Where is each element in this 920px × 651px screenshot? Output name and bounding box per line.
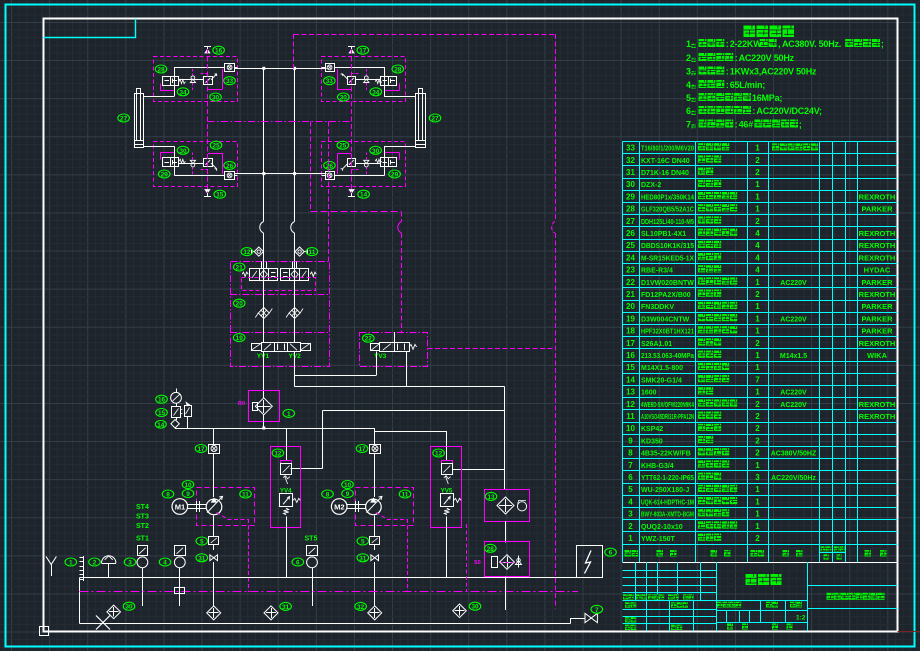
wire BR block to right cylinder: [384, 146, 415, 148]
manifold block outline: [230, 262, 330, 367]
label 8 M2: [322, 490, 334, 499]
label 26 BR: [324, 161, 336, 170]
jog on A riser: [260, 222, 264, 234]
tank bottom line: [80, 623, 571, 625]
check-throttle 20a: [255, 308, 272, 319]
svg-text:AC380V/50HZ: AC380V/50HZ: [771, 451, 817, 458]
svg-text:33: 33: [626, 144, 635, 153]
label 22: [363, 334, 375, 343]
motor-pump group M2: [331, 488, 413, 592]
node A marker: [155, 420, 179, 429]
label 33 TR: [324, 77, 336, 86]
svg-text:YTT62-1-220-IP65: YTT62-1-220-IP65: [641, 475, 694, 482]
measuring coupling on A riser: [251, 247, 263, 256]
svg-text:30: 30: [340, 95, 348, 102]
label 16 gauge: [156, 395, 168, 404]
svg-text:AC220V: AC220V: [780, 280, 807, 287]
svg-text:3: 3: [686, 67, 691, 77]
svg-text:WIKA: WIKA: [867, 351, 888, 360]
svg-text:BWY-803A-XMTD-BGM: BWY-803A-XMTD-BGM: [641, 512, 694, 519]
wire TR block to right cylinder: [384, 96, 415, 98]
svg-text:33: 33: [226, 78, 234, 85]
svg-text:REXROTH: REXROTH: [859, 229, 896, 238]
bottom-right red line: [898, 631, 920, 633]
temperature switch 3 column: [137, 546, 148, 607]
tank right return: [571, 618, 586, 623]
svg-text:M2: M2: [334, 503, 345, 512]
tank drain X: [96, 616, 110, 630]
svg-text:30: 30: [179, 148, 187, 155]
svg-text:1: 1: [628, 534, 633, 543]
air cooler block 13: [485, 490, 530, 522]
junction dot rail-filter: [262, 427, 265, 430]
pilot line right trunk vertical: [552, 34, 556, 609]
jog on B riser: [291, 222, 295, 234]
label 17 pump2: [356, 445, 368, 454]
label 7: [591, 605, 603, 614]
svg-text:REXROTH: REXROTH: [859, 192, 896, 201]
motor-pump group M1: [172, 488, 255, 592]
svg-text:8: 8: [628, 449, 633, 458]
svg-text:M1: M1: [175, 503, 186, 512]
svg-text:QUQ2-10x10: QUQ2-10x10: [641, 524, 683, 531]
svg-text:1: 1: [755, 192, 760, 201]
svg-text:4: 4: [755, 253, 760, 262]
solenoid relief block YV5: [431, 447, 462, 578]
pilot line top horizontal: [294, 34, 555, 36]
svg-text:30: 30: [471, 604, 479, 611]
svg-text:20: 20: [626, 302, 635, 311]
label 11 M1: [240, 490, 252, 499]
svg-text:23: 23: [626, 266, 635, 275]
svg-text:20: 20: [236, 301, 244, 308]
svg-text:1: 1: [755, 510, 760, 519]
hydraulic cylinder 27 (right): [415, 89, 425, 148]
svg-text:PARKER: PARKER: [861, 278, 893, 287]
svg-text:REXROTH: REXROTH: [859, 241, 896, 250]
check valve 17 pump1: [209, 445, 220, 454]
wire pump rail: [175, 428, 375, 430]
air breather 2: [102, 556, 116, 578]
label 1: [65, 558, 77, 567]
svg-text:AC220V: AC220V: [780, 402, 807, 409]
svg-text:2: 2: [755, 400, 760, 409]
wire filter vertical: [263, 391, 265, 428]
svg-text:32: 32: [357, 604, 365, 611]
pilot line BR to block22: [311, 122, 402, 333]
label 6: [292, 558, 304, 567]
svg-text:FD12PA2X/B00: FD12PA2X/B00: [641, 292, 691, 299]
label 12 YV4: [272, 449, 284, 458]
svg-text:5: 5: [686, 93, 691, 103]
svg-text:S26A1.01: S26A1.01: [641, 341, 672, 348]
svg-text:1: 1: [69, 560, 73, 567]
yv5 case drain: [466, 524, 468, 592]
svg-text:1: 1: [755, 485, 760, 494]
svg-text:2: 2: [755, 412, 760, 421]
svg-text:4: 4: [686, 80, 691, 90]
svg-text:2: 2: [755, 436, 760, 445]
svg-text:YV3: YV3: [374, 353, 387, 360]
label 28 return filter: [485, 544, 497, 553]
svg-text:19: 19: [236, 335, 244, 342]
svg-text:30: 30: [212, 95, 220, 102]
label 30 diffuser: [123, 602, 135, 611]
svg-text:9: 9: [628, 436, 633, 445]
label 14 below BR: [358, 190, 370, 199]
svg-text:7: 7: [755, 375, 760, 384]
svg-text:D71K-16 DN40: D71K-16 DN40: [641, 170, 689, 177]
svg-text:21: 21: [626, 290, 635, 299]
svg-text:8: 8: [326, 492, 330, 499]
wire pump2 pressure: [374, 428, 376, 497]
svg-text::: :: [726, 39, 729, 49]
svg-text:4: 4: [755, 266, 760, 275]
svg-text:3: 3: [128, 560, 132, 567]
label 18 filter: [283, 409, 295, 418]
label 9 M2: [342, 490, 354, 499]
wire yv4 branch link: [291, 468, 323, 470]
svg-text:UQK-614-HDPTHC-1M: UQK-614-HDPTHC-1M: [641, 499, 694, 506]
heater 6 column: [307, 546, 318, 607]
svg-text:26: 26: [626, 229, 635, 238]
svg-text:;: ;: [881, 39, 884, 49]
svg-text:1: 1: [755, 144, 760, 153]
svg-text:2: 2: [755, 339, 760, 348]
svg-text:S0: S0: [474, 560, 481, 566]
svg-text:1: 1: [755, 461, 760, 470]
svg-text:,: ,: [778, 39, 781, 49]
label 8 M1: [162, 490, 174, 499]
suction diffuser pump2: [368, 606, 382, 620]
valve block bottom-right: [322, 142, 406, 187]
svg-text:15: 15: [216, 192, 224, 199]
label 30 right diffuser: [469, 602, 481, 611]
svg-text:11: 11: [626, 412, 635, 421]
svg-text:KSP42: KSP42: [641, 426, 663, 433]
label YV1: [257, 353, 270, 360]
label 9 M1: [182, 490, 194, 499]
svg-text:17: 17: [358, 446, 366, 453]
wire manifold A down to filter: [263, 352, 265, 391]
svg-text:6: 6: [628, 473, 633, 482]
valve block top-left (pilot check + relief): [154, 57, 238, 102]
ST5 label: [305, 536, 318, 543]
wire B riser lower: [294, 233, 296, 262]
svg-text:12: 12: [243, 249, 251, 256]
label 15 gauge: [156, 409, 168, 418]
svg-text:18: 18: [626, 327, 635, 336]
label 15 below BL: [214, 190, 226, 199]
title block texts: [623, 574, 885, 630]
svg-text:ST2: ST2: [136, 523, 149, 530]
svg-text:16: 16: [626, 351, 635, 360]
svg-text:25: 25: [339, 143, 347, 150]
hydraulic cylinder 27 (left): [134, 89, 144, 148]
svg-text:26: 26: [226, 163, 234, 170]
wire cooler to filter: [505, 521, 507, 542]
svg-text:6: 6: [609, 550, 613, 557]
svg-text:KXT-16C DN40: KXT-16C DN40: [641, 158, 690, 165]
label YV3: [374, 353, 387, 360]
svg-text:14: 14: [360, 192, 368, 199]
svg-text:HED80P1x/350K14: HED80P1x/350K14: [641, 194, 694, 201]
drain symbol below BL block: [204, 190, 211, 197]
pilot line top center vertical: [293, 34, 295, 68]
svg-text:28: 28: [394, 67, 402, 74]
svg-text:3: 3: [628, 510, 633, 519]
svg-text:31: 31: [282, 604, 290, 611]
svg-text:2: 2: [755, 449, 760, 458]
svg-text:1: 1: [755, 522, 760, 531]
wire A riser: [263, 68, 265, 221]
svg-text:6: 6: [296, 560, 300, 567]
svg-text:1: 1: [755, 388, 760, 397]
svg-text:2: 2: [755, 534, 760, 543]
suction diffuser pump1: [207, 606, 221, 620]
svg-text:HYDAC: HYDAC: [864, 266, 891, 275]
svg-text:29: 29: [391, 172, 399, 179]
svg-text:2: 2: [755, 168, 760, 177]
svg-text:28: 28: [487, 546, 495, 553]
svg-text:33: 33: [326, 78, 334, 85]
label 11: [306, 248, 318, 257]
suction diffuser right: [453, 604, 467, 618]
label 26 BL: [224, 161, 236, 170]
svg-text:D3W004CNTW: D3W004CNTW: [641, 316, 690, 323]
svg-text:R0: R0: [238, 401, 245, 407]
pump1 suction line + strainer 5 + valve 31: [209, 516, 219, 606]
wire manifold risers: [264, 262, 295, 343]
svg-text:4WE6D-5X/OFW220N9K4: 4WE6D-5X/OFW220N9K4: [641, 402, 694, 409]
svg-text:ST5: ST5: [305, 536, 318, 543]
label 30 BL: [177, 146, 189, 155]
svg-text:19: 19: [626, 314, 635, 323]
wire BL block to left cylinder: [144, 146, 175, 148]
svg-text:12: 12: [626, 400, 635, 409]
svg-text:46#: 46#: [739, 120, 754, 130]
pilot line TR-BR vertical: [351, 49, 353, 193]
label 25 BL: [210, 141, 222, 150]
svg-text:3: 3: [755, 473, 760, 482]
wire B riser: [294, 68, 296, 221]
wire TL block to left cylinder: [144, 96, 175, 98]
tank breather Y: [46, 557, 56, 577]
svg-text:PARKER: PARKER: [861, 314, 893, 323]
svg-text:REXROTH: REXROTH: [859, 339, 896, 348]
wire block22 port2: [406, 352, 408, 387]
svg-text:2-22KW: 2-22KW: [730, 39, 763, 49]
label 6 heater: [605, 548, 617, 557]
svg-text:29: 29: [626, 192, 635, 201]
label 19: [233, 334, 245, 343]
svg-text:12: 12: [274, 451, 282, 458]
label 27 left cylinder: [118, 114, 130, 123]
drain symbol 17 (top right): [348, 47, 355, 54]
level gauge 1: [80, 556, 84, 581]
svg-text:65L/min;: 65L/min;: [730, 80, 766, 90]
label 20: [233, 299, 245, 308]
svg-text:15: 15: [626, 363, 635, 372]
svg-text:REXROTH: REXROTH: [859, 290, 896, 299]
label 3: [124, 558, 136, 567]
svg-text:1: 1: [287, 411, 291, 418]
svg-text:24: 24: [626, 253, 635, 262]
svg-text:1: 1: [755, 327, 760, 336]
svg-text:AC220V 50Hz: AC220V 50Hz: [739, 53, 795, 63]
svg-text:4: 4: [628, 497, 633, 506]
svg-text:11: 11: [309, 249, 316, 256]
svg-text:9: 9: [346, 491, 350, 498]
svg-text:26: 26: [326, 163, 334, 170]
label 12 YV5: [433, 449, 445, 458]
svg-text:WU-250X180-J: WU-250X180-J: [641, 487, 689, 494]
svg-text::: :: [735, 120, 738, 130]
svg-text:DDH125L/40-110-M5: DDH125L/40-110-M5: [641, 219, 694, 226]
svg-text:5: 5: [361, 539, 365, 546]
label 5 strainer1: [196, 537, 208, 546]
svg-text:2: 2: [628, 522, 633, 531]
svg-text:1KWx3,AC220V 50Hz: 1KWx3,AC220V 50Hz: [730, 67, 817, 77]
wire cooler riser: [504, 387, 506, 490]
label 30 TL: [210, 93, 222, 102]
manifold inner pilot box: [242, 278, 316, 291]
svg-text:ST4: ST4: [136, 504, 149, 511]
svg-text:34: 34: [179, 89, 187, 96]
wire pump1 pressure: [213, 428, 215, 497]
label R1 text: [238, 401, 245, 407]
svg-text:M14x1.5: M14x1.5: [780, 353, 807, 360]
svg-text:30: 30: [372, 148, 380, 155]
svg-text::: :: [726, 67, 729, 77]
svg-text:ST3: ST3: [136, 514, 149, 521]
svg-text:9: 9: [186, 491, 190, 498]
svg-text:1: 1: [686, 39, 691, 49]
svg-text:30: 30: [125, 604, 133, 611]
svg-text:2: 2: [755, 156, 760, 165]
svg-text:25: 25: [212, 143, 220, 150]
svg-text::: :: [752, 106, 755, 116]
junction dots center: [262, 67, 296, 175]
label 31 valve2: [357, 554, 369, 563]
svg-text:31: 31: [359, 555, 367, 562]
svg-text:1: 1: [755, 363, 760, 372]
svg-text:1600: 1600: [641, 390, 657, 397]
svg-text:7: 7: [628, 461, 633, 470]
counterbalance valve 21b: [281, 262, 317, 281]
svg-text:16: 16: [215, 48, 223, 55]
svg-text:1: 1: [755, 351, 760, 360]
label YV2: [289, 353, 302, 360]
svg-text:12: 12: [435, 451, 443, 458]
svg-text:31: 31: [198, 555, 206, 562]
svg-text:34: 34: [372, 89, 380, 96]
solenoid block 22 outline: [360, 333, 428, 367]
drain symbol 16 (top left): [204, 47, 211, 54]
label 29 BL: [158, 170, 170, 179]
svg-text:31: 31: [626, 168, 635, 177]
wire YV3 pilot stub: [394, 332, 396, 342]
svg-text:22: 22: [365, 336, 373, 343]
svg-text:REXROTH: REXROTH: [859, 253, 896, 262]
parts table rows text: [626, 143, 895, 543]
pilot line block22 to trunk: [427, 348, 555, 350]
svg-text:ST1: ST1: [136, 536, 149, 543]
svg-text:AC220V/DC24V;: AC220V/DC24V;: [756, 106, 822, 116]
electric heater box: [577, 546, 603, 578]
svg-text:KHB-G3/4: KHB-G3/4: [641, 463, 674, 470]
svg-text:13: 13: [626, 388, 635, 397]
svg-text:11: 11: [402, 492, 409, 499]
svg-text:213.53.063-40MPa: 213.53.063-40MPa: [641, 353, 694, 360]
label 5 strainer2: [357, 537, 369, 546]
svg-text:1: 1: [755, 497, 760, 506]
parts table grid: [623, 141, 898, 562]
svg-text:PARKER: PARKER: [861, 302, 893, 311]
label 32 diffuser: [355, 602, 367, 611]
svg-text:6: 6: [686, 106, 691, 116]
svg-text:16: 16: [158, 397, 166, 404]
svg-text:2: 2: [755, 217, 760, 226]
label 27 right cylinder: [429, 114, 441, 123]
svg-text:YWZ-150T: YWZ-150T: [641, 536, 676, 543]
svg-text:T16/80/1/200/M6V20: T16/80/1/200/M6V20: [641, 146, 694, 153]
suction diffuser left: [107, 605, 121, 619]
label 16: [213, 46, 225, 55]
svg-text:15: 15: [158, 410, 166, 417]
svg-text:M-SR15KED5-1X: M-SR15KED5-1X: [641, 255, 694, 262]
label 4: [159, 558, 171, 567]
svg-text:DZX-2: DZX-2: [641, 182, 661, 189]
title block grid: [623, 562, 898, 631]
svg-text:28: 28: [157, 67, 165, 74]
svg-text:AC220V: AC220V: [780, 390, 807, 397]
svg-text:25: 25: [626, 241, 635, 250]
svg-text:PARKER: PARKER: [861, 205, 893, 214]
parts table header texts: [625, 546, 887, 559]
pump2 suction line + strainer 5 + valve 31: [370, 516, 380, 606]
svg-text:29: 29: [161, 172, 169, 179]
svg-text:10: 10: [344, 482, 352, 489]
svg-text:10: 10: [184, 482, 192, 489]
svg-text:14: 14: [157, 422, 165, 429]
label 29 BR: [389, 170, 401, 179]
svg-text:27: 27: [120, 116, 128, 123]
wire block22 port1: [376, 352, 378, 376]
svg-text:17: 17: [359, 48, 367, 55]
technical parameters text block: [686, 26, 884, 130]
svg-text:28: 28: [626, 205, 635, 214]
solenoid relief block YV4: [271, 447, 301, 578]
svg-text:22: 22: [626, 278, 635, 287]
svg-text:7: 7: [686, 120, 691, 130]
svg-text:1:2: 1:2: [796, 615, 806, 622]
svg-text:;: ;: [799, 120, 802, 130]
svg-text:5: 5: [200, 539, 204, 546]
svg-text:1: 1: [755, 314, 760, 323]
label 33 TL: [224, 77, 236, 86]
pilot drop to manifold: [328, 122, 330, 262]
wire yv4 riser: [286, 428, 288, 447]
svg-text:KD350: KD350: [641, 438, 663, 445]
svg-text:1: 1: [755, 180, 760, 189]
label 25 BR: [337, 141, 349, 150]
svg-text:7: 7: [595, 607, 599, 614]
drain ball valve 7: [585, 613, 597, 622]
label 28 TR: [392, 65, 404, 74]
wire B-line bottom (BL-BR): [235, 173, 327, 175]
wire yv5 top link: [375, 431, 447, 446]
